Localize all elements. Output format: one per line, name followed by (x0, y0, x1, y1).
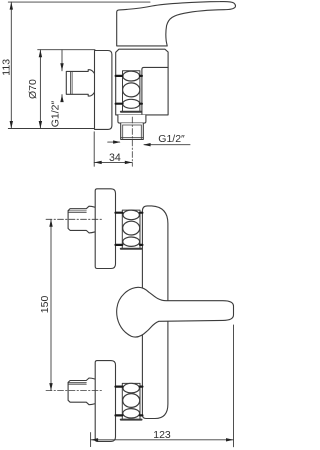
upper connector ring middle (123, 221, 140, 235)
body bar (vertical) (142, 206, 168, 419)
hex facet line (70, 71, 72, 94)
upper stub left top (116, 212, 123, 214)
outlet threaded pipe (121, 123, 144, 139)
thread inner top line (123, 124, 142, 126)
svg-text:G1/2″: G1/2″ (158, 133, 185, 145)
lower stub left bottom (116, 414, 123, 416)
upper connector ring bottom (123, 237, 140, 246)
upper wall plate (95, 189, 115, 269)
wall plate (side view) (95, 51, 112, 130)
lower connector bottom cap (121, 419, 142, 421)
cartridge block top edge (142, 67, 168, 69)
arrow 113 top (10, 2, 13, 10)
dimension line G1/2 left upper segment (61, 50, 63, 71)
upper connector bottom cap (121, 248, 142, 250)
arrow 150 top (49, 219, 52, 227)
arrow 34 right (125, 161, 133, 164)
arrow 34 left (94, 161, 102, 164)
thread inner bottom line (121, 137, 144, 139)
dimension line phi70 (39, 50, 41, 129)
faucet body (side view) (116, 49, 168, 115)
arrow 150 bottom (49, 383, 52, 391)
thread inner line left (122, 125, 124, 139)
lower stub right bottom (140, 414, 142, 416)
connector stub right upper (140, 75, 142, 77)
lower stub right top (140, 386, 142, 388)
hex facet line 2 (71, 71, 73, 94)
connector stub left upper (116, 75, 123, 77)
lower connector ring bottom (123, 409, 140, 418)
upper connector ring top (123, 210, 139, 220)
upper stub right bottom (140, 244, 142, 246)
outlet hex section (118, 115, 146, 123)
upper connector nut box (122, 210, 140, 249)
connector ring middle (123, 83, 140, 97)
upper hex facet line (68, 210, 86, 212)
extension line bottom (plate bottom) (8, 128, 95, 130)
svg-text:Ø70: Ø70 (27, 79, 39, 99)
dimension line 123 (91, 439, 234, 441)
arrow G1/2 left down (60, 63, 63, 71)
svg-text:G1/2″: G1/2″ (50, 101, 62, 128)
outlet centerline (131, 117, 133, 166)
extension line 123 right (233, 325, 235, 447)
svg-text:34: 34 (109, 152, 121, 164)
connector nut box (side view) (123, 71, 140, 112)
lower hex facet line (68, 382, 86, 384)
arrow phi70 top (39, 50, 42, 58)
arrow 123 right (226, 438, 234, 441)
lever handle with base (side view) (117, 2, 236, 46)
arrow 113 bottom (10, 121, 13, 129)
upper hex fitting (68, 206, 95, 233)
connector nut bottom cap (121, 111, 141, 113)
lower stub left top (116, 386, 123, 388)
lower connector nut box (122, 383, 140, 419)
extension line 123 left (90, 433, 92, 447)
leader G1/2 outlet left arrow (108, 141, 120, 143)
upper stub right top (140, 212, 142, 214)
lever handle (top view): knob + arm (117, 287, 234, 337)
arrow G1/2 left up (60, 95, 63, 103)
lower connector ring top (123, 383, 139, 393)
lower hex fitting (68, 378, 95, 405)
connector ring bottom (123, 99, 140, 108)
lower wall plate (95, 361, 115, 442)
arrow phi70 bottom (39, 121, 42, 129)
connector stub right lower (140, 103, 142, 105)
dimension line 150 (50, 219, 52, 390)
leader G1/2 outlet right arrow (144, 144, 190, 146)
lower connector ring middle (123, 394, 140, 408)
extension line top (lever tip height) (8, 1, 150, 3)
svg-text:123: 123 (153, 429, 171, 441)
hex inlet fitting (side view) (66, 70, 94, 96)
dimension line 113 (10, 2, 12, 128)
lower inlet centerline (46, 390, 103, 392)
connector ring top (123, 71, 140, 81)
lower hex facet line 2 (68, 383, 86, 385)
upper hex facet line 2 (68, 211, 86, 213)
upper stub left bottom (116, 244, 123, 246)
svg-text:150: 150 (39, 296, 51, 314)
svg-text:113: 113 (0, 59, 12, 76)
arrow 123 left (91, 438, 99, 441)
thread inner line right (140, 125, 142, 139)
extension line phi70 top (38, 49, 95, 51)
extension line 34 left (93, 132, 95, 167)
upper inlet centerline (46, 218, 103, 220)
dimension line 34 (94, 161, 132, 163)
connector stub left lower (116, 103, 123, 105)
cartridge block left edge (141, 69, 143, 115)
dimension line G1/2 left lower segment (61, 95, 63, 102)
